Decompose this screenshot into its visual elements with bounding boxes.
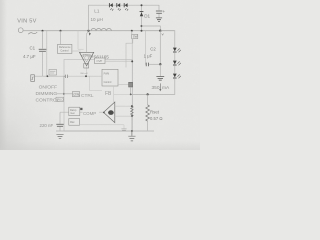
wire down to CTRL [63, 76, 65, 94]
node COMP tab [80, 108, 82, 110]
capacitor internal to rail [121, 129, 126, 130]
wire sense to ground [131, 116, 133, 131]
pin CTRL box [73, 92, 80, 97]
wire squiggle mark [28, 32, 37, 34]
label COMP [83, 110, 100, 115]
wire reference to amp [72, 50, 81, 52]
wire rail to comparator [86, 32, 88, 53]
wire dimming line [35, 75, 64, 77]
block apex tab [84, 63, 89, 68]
wire VOUT top line [89, 5, 160, 31]
node VIN input terminal [18, 28, 23, 33]
LED 6 [173, 74, 181, 79]
inductor L1 [91, 28, 111, 31]
block oscillator [69, 119, 80, 126]
node junction C2 [159, 63, 161, 65]
block ramp generator [69, 107, 80, 115]
wire VIN rail [23, 30, 174, 32]
wire VIN to CTRL branch [46, 31, 48, 76]
node SW net junction [159, 30, 161, 32]
wire CTRL internal trace [90, 76, 103, 90]
wire SW net vertical [159, 31, 161, 64]
wire FB pin to LED return [130, 87, 132, 94]
node D1 anode junction [141, 25, 143, 27]
wire oscillator output [80, 125, 124, 129]
node D1 rail junction [141, 30, 143, 32]
wire amp to sense bottom [115, 115, 132, 117]
node OVP junction [131, 60, 133, 62]
wire reference supply [60, 31, 62, 45]
LED 5 [173, 61, 181, 74]
node ground junction [131, 130, 133, 132]
node junction LED return [87, 30, 89, 32]
node junction SW pin tap [131, 30, 133, 32]
wire SW pin to rail [131, 31, 133, 34]
edge vignette bottom [0, 141, 200, 150]
wire OVP to SW bus [105, 60, 132, 62]
node error amp apex dot [103, 112, 105, 114]
wire tick mark [162, 33, 164, 35]
node junction C1 [42, 30, 44, 32]
op-amp U1 error amplifier [104, 102, 115, 123]
capacitor C3 output (polarized) [158, 5, 160, 10]
wire PWM to amp [113, 86, 115, 102]
wire amp to sense top [115, 105, 132, 107]
node junction dimming [47, 75, 49, 77]
LED 1 [109, 3, 113, 11]
wire COMP node line [60, 111, 104, 113]
block UVLO small box [56, 97, 64, 101]
wire amp output down [86, 66, 88, 76]
wire C2 node down [159, 64, 161, 76]
wire internal FB trace [114, 93, 131, 95]
wire D1 anode to SW node [142, 26, 161, 31]
wire to LED string right [160, 31, 175, 48]
capacitor dimming source [31, 75, 35, 82]
wire ground rail [56, 130, 154, 132]
wire PWM to FB pin [118, 84, 129, 86]
op-amp A1 comparator [80, 52, 94, 66]
LED 4 [173, 48, 181, 61]
block PWM control [102, 69, 118, 86]
ground 220nF [56, 134, 63, 138]
node FB junction [130, 94, 132, 96]
wire VIN to amp [78, 31, 84, 50]
node junction VOUT / D1 cathode [141, 4, 143, 6]
resistor Rset [147, 94, 149, 104]
ground symbol IC [128, 131, 135, 141]
wire current arrow [159, 83, 161, 89]
wire CTRL line [57, 93, 73, 95]
node junction amp bias [85, 75, 87, 77]
wire arrow mark at L1 input [89, 32, 91, 35]
capacitor C2 [144, 31, 146, 65]
edge vignette left [0, 0, 7, 150]
wire SW pin into IC [126, 39, 133, 68]
capacitor 220nF [56, 124, 63, 126]
wire COMP pin [59, 112, 61, 124]
block soft start small box [49, 70, 57, 76]
node junction CTRL [63, 93, 65, 95]
wire LED string bottom to FB [131, 78, 175, 94]
diode D1 [140, 11, 144, 13]
pin FB box [129, 82, 133, 87]
ground C2 [156, 77, 164, 81]
wire internal SW bus [131, 39, 133, 106]
LED 2 [117, 3, 121, 11]
block reference control [58, 44, 72, 53]
ground output cap [156, 18, 162, 22]
capacitor C1 [42, 31, 44, 49]
pin SW box [132, 34, 138, 38]
capacitor coupling marks [64, 75, 68, 78]
block OVP [95, 58, 106, 64]
node junction reference supply [60, 30, 62, 32]
node junction Rset [147, 93, 149, 95]
resistor R1 internal sense [131, 105, 133, 107]
LED 3 [124, 3, 128, 11]
IC U1 TPS61165 outline [64, 60, 133, 132]
wire dimming line into IC [68, 75, 102, 77]
